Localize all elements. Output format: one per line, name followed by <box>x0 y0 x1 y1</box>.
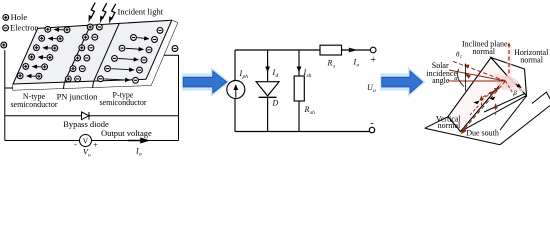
incident light bolt 3 <box>109 4 116 24</box>
svg-text:o: o <box>357 63 360 69</box>
red ray solid upper <box>449 70 506 81</box>
divider strip line 1 <box>63 82 64 89</box>
pink tint right face <box>494 73 526 92</box>
svg-text:angle: angle <box>432 76 450 85</box>
red ray solid lower <box>448 80 506 82</box>
svg-text:o: o <box>139 152 142 158</box>
svg-text:R: R <box>327 59 333 68</box>
N-type holes rows <box>17 26 70 79</box>
divider strip line 2 <box>93 81 94 88</box>
svg-text:s: s <box>333 64 335 70</box>
incident light bolt 2 <box>100 3 107 23</box>
flow arrow 2 <box>380 67 426 97</box>
black vertical angle line <box>465 64 467 92</box>
red ray arrowhead to sun <box>464 73 471 79</box>
svg-text:+: + <box>93 141 98 150</box>
beta angle arrow <box>516 84 521 88</box>
solar incidence angle arc <box>458 69 464 87</box>
+ terminal <box>370 47 376 53</box>
Rsh branch wire <box>298 50 300 76</box>
ground bottom-right edge <box>500 106 550 145</box>
slab side face <box>146 20 178 85</box>
legend electron symbol <box>3 25 9 31</box>
wire Rs to + terminal <box>342 49 371 51</box>
ground plane <box>425 92 550 145</box>
slab top-right edge <box>146 20 172 79</box>
P-type electron rows <box>98 28 163 84</box>
- terminal right <box>172 46 178 52</box>
resistor Rsh <box>294 76 304 101</box>
svg-text:sh: sh <box>310 110 315 116</box>
svg-text:semiconductor: semiconductor <box>99 98 146 107</box>
svg-text:Incident light: Incident light <box>118 7 164 17</box>
ground inner line <box>500 96 527 130</box>
svg-text:sh: sh <box>307 73 312 79</box>
pink glow at ray point <box>497 76 515 89</box>
top wire <box>235 49 320 51</box>
flow arrow 1 <box>182 67 230 97</box>
incident light bolt 1 <box>89 3 96 23</box>
slab divider N/PN <box>65 25 91 81</box>
svg-text:ph: ph <box>242 74 249 80</box>
ground top-left edge <box>425 116 449 128</box>
bottom wire <box>5 140 179 142</box>
legend hole symbol <box>3 15 9 21</box>
bypass diode wire <box>5 115 179 117</box>
ground NE corner <box>532 92 550 104</box>
resistor Rs <box>320 45 342 55</box>
PV slab silhouette <box>13 20 178 90</box>
horizontal normal top arrowhead <box>508 42 511 46</box>
ground bottom-left edge <box>425 128 500 145</box>
svg-text:Electron: Electron <box>10 23 40 33</box>
svg-text:t: t <box>460 55 462 60</box>
Ish current arrow <box>298 62 300 72</box>
svg-text:o: o <box>373 88 376 94</box>
svg-text:+: + <box>370 55 376 66</box>
svg-text:Due south: Due south <box>466 128 499 137</box>
Id current arrow <box>267 62 269 72</box>
bottom wire <box>235 131 369 133</box>
svg-text:R: R <box>304 105 310 114</box>
pink halo vertical line <box>507 45 512 77</box>
voltmeter V <box>80 135 92 147</box>
+ terminal left <box>1 42 7 48</box>
svg-text:o: o <box>88 153 91 159</box>
inclined plane normal dashed <box>452 61 506 81</box>
slope arrows toward H <box>476 92 494 104</box>
slope black arrowheads <box>473 101 479 105</box>
wire left horizontal to slab <box>5 87 13 89</box>
slope extra dash <box>470 104 480 115</box>
slope vertical arrows <box>481 96 483 106</box>
horizontal normal dashed vertical <box>508 44 510 77</box>
slab front top edge <box>13 79 146 84</box>
svg-text:D: D <box>272 99 279 108</box>
slab divider PN/P <box>94 23 119 80</box>
svg-text:-: - <box>370 118 373 129</box>
svg-text:V: V <box>83 136 89 145</box>
svg-text:semiconductor: semiconductor <box>10 100 57 109</box>
svg-text:d: d <box>276 73 279 79</box>
current source Iph <box>227 81 245 99</box>
wire right horizontal from slab <box>164 55 179 140</box>
left wire <box>234 50 236 81</box>
due south dashed arrow <box>463 81 506 131</box>
svg-text:Hole: Hole <box>11 12 28 22</box>
wedge slope panel <box>448 58 508 132</box>
diode branch wire <box>267 50 269 82</box>
- terminal <box>369 127 374 132</box>
svg-text:normal: normal <box>472 47 495 56</box>
svg-text:normal: normal <box>520 55 543 64</box>
slab front face <box>13 79 151 90</box>
svg-text:normal: normal <box>438 121 461 130</box>
ray through surface dashed <box>506 81 515 95</box>
wedge right face <box>491 58 527 96</box>
svg-text:Output voltage: Output voltage <box>101 128 152 138</box>
wire left vertical from + terminal <box>4 50 6 141</box>
PN junction pairs <box>65 24 102 82</box>
inclined plane normal arrowhead <box>464 65 470 69</box>
wedge base twin line <box>484 93 526 112</box>
diode D <box>256 82 279 96</box>
bypass diode symbol <box>82 112 90 120</box>
output current arrow <box>128 139 148 143</box>
Io output arrow <box>349 48 358 53</box>
svg-text:PN junction: PN junction <box>57 92 99 102</box>
svg-text:-: - <box>74 140 77 149</box>
wedge bottom edge <box>461 96 527 132</box>
